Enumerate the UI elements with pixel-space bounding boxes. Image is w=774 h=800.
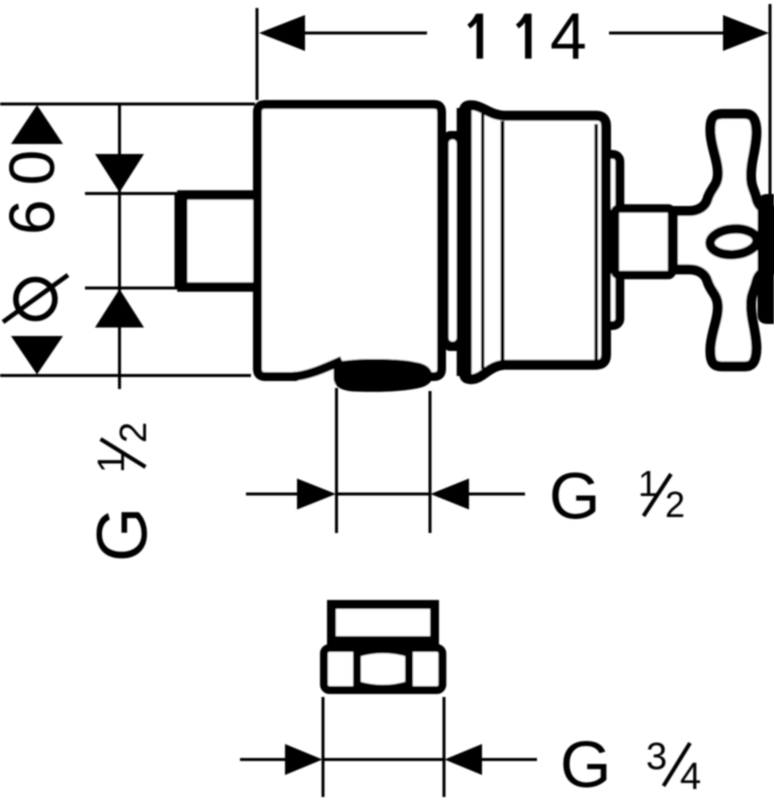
dimension G 3/4: left extension line — [322, 697, 325, 797]
dimension G 1/2 (bottom outlet): left leader — [246, 493, 298, 496]
dimension G 1/2 (bottom outlet): connecting line — [337, 493, 431, 496]
dimension Ø60: diameter symbol slash — [3, 275, 68, 322]
svg-text:4: 4 — [680, 756, 701, 798]
groove ring white slot — [449, 140, 457, 342]
dimension 114: right leader line — [609, 32, 725, 35]
dimension Ø60: diameter symbol circle — [16, 280, 55, 319]
dimension G 3/4: right leader — [482, 758, 537, 761]
dimension G 3/4: connecting line — [323, 758, 444, 761]
dimension 114: value label digit 1 — [525, 14, 532, 59]
dimension G 3/4: right extension line — [443, 697, 446, 797]
dimension Ø60: down arrowhead — [11, 336, 63, 375]
cross handle outline — [673, 114, 774, 366]
outlet spout crescent — [333, 359, 432, 392]
handle front arm (black blob at image edge) — [758, 194, 774, 324]
dimension 114: right extension line — [769, 4, 772, 196]
stub dimension: down arrowhead — [95, 154, 144, 193]
label G 1/2 horizontal: fraction slash — [644, 474, 672, 516]
svg-text:4: 4 — [550, 0, 587, 73]
bottom fitting: upper connector rectangle — [332, 605, 435, 641]
cone separation line — [501, 121, 505, 362]
bottom fitting: hex nut left face line — [353, 650, 361, 688]
bell skirt and cartridge housing outline — [464, 105, 606, 379]
stub dimension: vertical dimension line — [118, 104, 121, 389]
dimension G 1/2 (bottom outlet): right extension line — [429, 391, 432, 533]
svg-text:G: G — [549, 459, 600, 533]
svg-text:2: 2 — [113, 422, 155, 443]
dimension G 3/4: left arrowhead — [285, 744, 323, 775]
svg-text:G: G — [84, 507, 163, 562]
dimension 114: left arrowhead — [259, 15, 305, 51]
dimension G 1/2 (bottom outlet): left arrowhead — [297, 479, 336, 510]
bottom fitting: hex nut middle face top arc — [358, 650, 408, 654]
dimension 114: left extension line — [256, 8, 259, 100]
stub dimension: top tick — [85, 192, 178, 195]
bell skirt thick left edge — [457, 108, 472, 376]
dimension 114: right arrowhead — [723, 15, 769, 51]
valve stem — [615, 209, 672, 276]
svg-text:G: G — [560, 727, 611, 800]
dimension Ø60: top extension line — [0, 103, 255, 106]
stub dimension: bottom tick — [85, 287, 178, 290]
stub dimension: up arrowhead — [95, 289, 144, 328]
wall supply stub outline — [182, 195, 253, 287]
bell inner contour line — [481, 112, 484, 369]
dimension G 3/4: left leader — [240, 758, 286, 761]
dimension G 1/2 (left, rotated): label 1/2 (numerator, slash, denominator) — [91, 422, 155, 473]
handle hub through-hole oval — [709, 227, 758, 256]
svg-text:2: 2 — [665, 484, 685, 525]
bottom fitting: hex nut right face line — [405, 650, 413, 688]
dimension Ø60: up arrowhead — [11, 105, 63, 144]
dimension G 1/2 (bottom outlet): right leader — [469, 493, 525, 496]
dimension G 1/2 (bottom outlet): right arrowhead — [431, 479, 470, 510]
dimension 114: left leader line — [303, 32, 427, 35]
dimension G 3/4: right arrowhead — [445, 744, 483, 775]
svg-text:60: 60 — [0, 136, 68, 235]
label G 3/4: fraction slash — [664, 743, 691, 786]
dimension 114: value label digit 1 — [476, 14, 483, 59]
cap at right of cartridge housing — [597, 155, 620, 326]
groove ring between escutcheon and bell — [444, 131, 472, 351]
escutcheon bottom wave cutout — [296, 350, 346, 385]
escutcheon plate outline — [258, 105, 442, 377]
wall supply stub thick left cap — [175, 193, 188, 289]
svg-text:3: 3 — [646, 736, 667, 778]
dimension Ø60: bottom extension line — [0, 374, 251, 377]
bottom fitting: hex nut body — [324, 648, 442, 690]
bottom fitting: hex nut middle face bottom arc — [358, 684, 408, 688]
escutcheon bottom wave edge — [292, 361, 342, 377]
housing inner edge line — [594, 124, 598, 360]
dimension G 1/2 (bottom outlet): left extension line — [335, 388, 338, 533]
